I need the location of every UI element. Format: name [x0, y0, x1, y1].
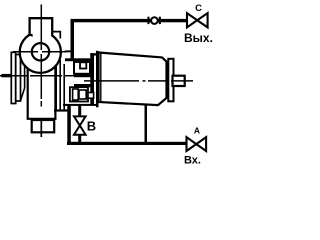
- bracket bottom line: [63, 104, 98, 106]
- coupling half left: [73, 89, 79, 100]
- left shoulder wedge: [29, 34, 33, 37]
- sight glass right tick: [159, 17, 161, 24]
- valve C: [187, 13, 208, 27]
- volute discharge nub: [65, 50, 71, 52]
- pump suction axis centerline: [0, 75, 80, 77]
- svg-text:Вх.: Вх.: [184, 154, 201, 166]
- suction flange ring 2: [16, 55, 21, 102]
- valve B stem top: [78, 106, 81, 117]
- coupling half right: [79, 90, 86, 99]
- suction stub pipe: [2, 74, 12, 77]
- valve A: [187, 137, 207, 151]
- motor axis centerline: [84, 80, 193, 82]
- pump circle horizontal centerline: [13, 51, 67, 53]
- valve B stem bottom: [78, 135, 81, 143]
- adapter top link: [90, 53, 96, 55]
- sight glass circle: [151, 17, 158, 24]
- bearing cap box: [80, 62, 86, 68]
- drop pipe to bottom: [67, 104, 71, 144]
- sight glass left tick: [147, 17, 149, 24]
- svg-text:С: С: [195, 3, 202, 14]
- adapter bar: [90, 53, 94, 105]
- top pipe: [71, 19, 187, 22]
- motor front flange: [96, 51, 99, 108]
- shaft lower bar: [74, 84, 94, 87]
- valve B: [74, 116, 86, 134]
- motor rear flange: [168, 59, 173, 102]
- motor front inner line: [100, 53, 102, 102]
- suction eye circle: [32, 43, 49, 60]
- pump pedestal: [28, 68, 56, 119]
- motor shaft: [173, 76, 185, 86]
- pump vertical centerline: [40, 5, 42, 107]
- bracket top plate: [65, 58, 94, 61]
- suction flange ring 1: [11, 52, 15, 103]
- pump foot block: [32, 120, 55, 132]
- bottom pipe: [67, 142, 186, 145]
- svg-text:А: А: [194, 126, 200, 136]
- svg-text:В: В: [87, 119, 96, 134]
- top block: [30, 18, 53, 36]
- bracket legs: [56, 60, 64, 110]
- svg-text:Вых.: Вых.: [184, 31, 213, 45]
- volute circle: [20, 32, 61, 73]
- motor drain pipe: [145, 106, 148, 143]
- motor body: [99, 53, 167, 106]
- guard step: [88, 93, 94, 99]
- bearing box: [74, 62, 90, 74]
- suction reducer: [21, 57, 25, 101]
- foot divider centerline: [40, 120, 42, 137]
- coupling outer box: [70, 87, 88, 101]
- right shoulder step: [52, 32, 60, 39]
- bracket foot bar: [54, 109, 68, 111]
- discharge pipe vertical: [71, 19, 75, 60]
- shaft upper bar: [74, 74, 94, 77]
